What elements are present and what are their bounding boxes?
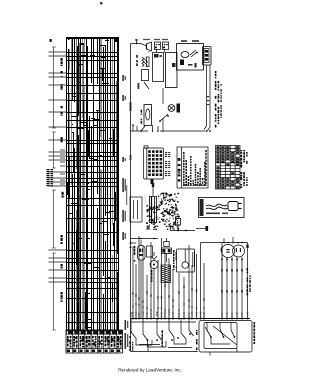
routing wires lower bbox=[139, 345, 192, 348]
lid switch symbol bbox=[159, 88, 169, 131]
motor label bbox=[247, 268, 251, 295]
schematic code grid table bbox=[216, 146, 241, 190]
drive motor label bbox=[173, 250, 177, 270]
svg-text:LV: LV bbox=[143, 192, 163, 209]
left switch group bbox=[130, 319, 166, 348]
capacitor C1 bbox=[138, 240, 146, 319]
noise filter component bbox=[170, 219, 195, 232]
timer chart legend table bbox=[66, 330, 123, 353]
perm press cool down label block bbox=[47, 169, 54, 186]
console box top labels bbox=[181, 40, 199, 42]
fuse link bbox=[196, 226, 208, 231]
long vertical wires right side bbox=[219, 46, 223, 318]
bottom exit wires bbox=[210, 349, 237, 356]
small marks column bbox=[151, 270, 153, 282]
timer switches label bbox=[254, 322, 256, 344]
notes text block (dense) bbox=[146, 193, 180, 231]
water level switch box bbox=[153, 53, 164, 82]
faint watermark bbox=[143, 192, 163, 209]
pilot lamp L1 bbox=[168, 104, 180, 113]
wiring verticals to bus bbox=[132, 236, 249, 320]
timer connector pin matrix J1 bbox=[144, 146, 164, 184]
buzzer BZ bbox=[143, 39, 152, 53]
water pump P bbox=[150, 252, 158, 319]
cycle section brackets bbox=[52, 47, 56, 330]
bottom left stub bbox=[131, 319, 149, 352]
thermostat box bbox=[138, 70, 150, 90]
lid switch rectangle bbox=[166, 53, 178, 88]
heater resistor R1 bbox=[142, 57, 150, 67]
wire from chart to buzzer bbox=[131, 39, 147, 46]
junction dots left bbox=[130, 242, 136, 248]
motor terminals bbox=[221, 257, 243, 319]
console box with motor start switch bbox=[172, 44, 204, 71]
bottom long wire bbox=[131, 351, 197, 353]
svg-text:Rendered by LeadVenture, Inc.: Rendered by LeadVenture, Inc. bbox=[118, 368, 182, 373]
middle group label bbox=[196, 330, 198, 352]
left group label bbox=[129, 336, 133, 351]
connector pin labels bbox=[165, 152, 170, 176]
bottom bus wire bbox=[130, 318, 250, 320]
cycle name labels bbox=[50, 39, 64, 302]
cam chart legend box bbox=[177, 147, 208, 188]
terminal block TB1 bbox=[203, 47, 212, 66]
routing wire y322 bbox=[131, 321, 197, 323]
harness wire ties bbox=[207, 96, 209, 105]
selector switch outline bbox=[130, 197, 142, 222]
pressure switch sub-circuit bbox=[144, 105, 152, 126]
wire id labels above bus bbox=[130, 312, 248, 318]
drive motor group box bbox=[177, 249, 195, 272]
harness label text column bbox=[215, 71, 222, 128]
switch contacts S1 S2 bbox=[154, 39, 169, 53]
heater label bbox=[136, 55, 138, 66]
chart margin notes bbox=[115, 38, 128, 350]
chart section leader lines bbox=[49, 52, 67, 282]
timer switch box bbox=[199, 321, 252, 353]
water valve solenoids bbox=[162, 238, 172, 262]
main harness wire (long vertical) bbox=[130, 44, 132, 319]
timer motor block bbox=[150, 179, 157, 223]
solenoid coil block bbox=[161, 265, 171, 283]
page mark bbox=[100, 2, 103, 5]
capacitor label bbox=[134, 246, 136, 262]
harness wires down from terminal block bbox=[204, 65, 210, 131]
motor sw inner label bbox=[162, 330, 164, 347]
power cord box bbox=[199, 198, 245, 218]
branch wire y238 bbox=[131, 238, 159, 240]
middle switch group bbox=[169, 319, 194, 345]
motor M windings bbox=[221, 244, 245, 257]
sub-cycle tick labels bbox=[60, 150, 65, 184]
bracket rect bbox=[147, 246, 153, 257]
wire row above connector bbox=[131, 124, 211, 132]
grid table side notes bbox=[241, 150, 248, 188]
agitate label bbox=[141, 110, 143, 124]
motor feed wire bbox=[201, 237, 249, 319]
timer sequence chart (rotated timing diagram) bbox=[67, 38, 119, 331]
